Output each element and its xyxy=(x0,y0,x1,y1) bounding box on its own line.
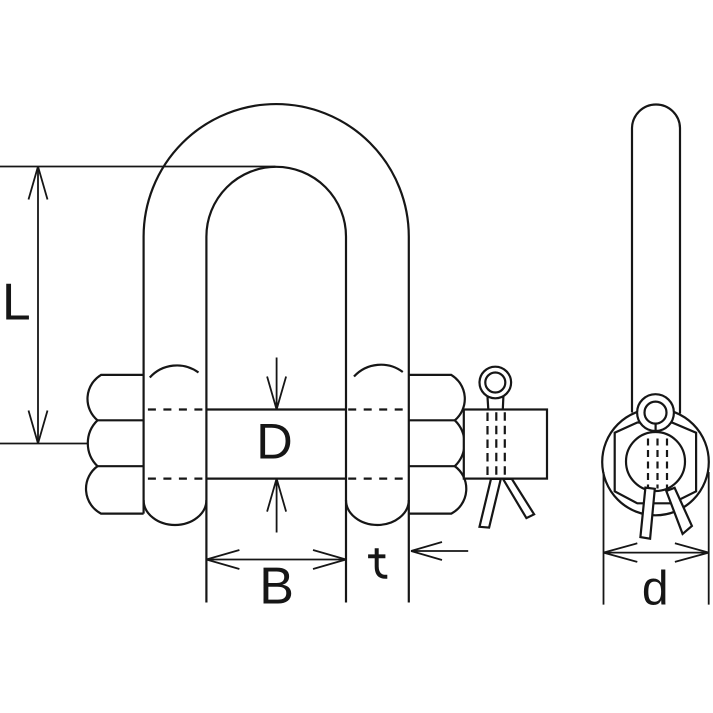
shackle outer bow (front view) xyxy=(144,104,409,602)
cotter pin spread leg left (side view) xyxy=(640,488,654,539)
dim L arrowhead down xyxy=(29,411,48,444)
svg-text:d: d xyxy=(642,563,669,616)
cotter pin ring (front view) xyxy=(480,367,512,399)
svg-text:B: B xyxy=(259,558,294,616)
dim d line with arrows xyxy=(604,552,709,554)
dim L line xyxy=(37,167,39,444)
pin end circle (side view) xyxy=(626,432,685,491)
dim D arrow bottom xyxy=(267,479,286,533)
pin eye circle (side view) xyxy=(602,409,709,516)
hidden bolt line (dashed) bottom, through left boss xyxy=(148,478,204,480)
bolt head face line lower xyxy=(409,465,455,467)
hidden bolt line (dashed) top, through left boss xyxy=(148,408,204,410)
dim D arrow top xyxy=(267,358,286,410)
cotter pin neck right xyxy=(502,396,505,410)
cotter pin spread leg right (side view) xyxy=(666,488,692,534)
hidden bolt line (dashed) top, through right boss xyxy=(348,408,404,410)
dim L extension line bottom xyxy=(0,443,88,445)
cotter pin spread leg right (front view) xyxy=(503,479,534,518)
hex nut face line lower xyxy=(98,465,144,467)
hex nut on left end of bolt xyxy=(86,375,144,514)
right leg boss arc xyxy=(354,365,403,377)
cotter pin hidden shank dashes in plate xyxy=(486,413,488,477)
dim d extension line right xyxy=(708,472,710,605)
left leg boss arc xyxy=(150,365,199,377)
bolt head on right end xyxy=(409,375,466,514)
cotter pin hidden shank dashes (side view) xyxy=(647,439,649,489)
dim L extension line top xyxy=(0,166,276,168)
cotter pin ring (side view) xyxy=(637,394,674,431)
left leg rounded bottom cap xyxy=(144,500,207,525)
label t xyxy=(368,548,387,577)
dim L arrowhead up xyxy=(29,167,48,200)
bolt end plate (cotter pin boss) xyxy=(464,410,547,479)
svg-text:L: L xyxy=(2,273,31,331)
cotter pin neck left xyxy=(486,397,489,410)
hidden bolt line (dashed) bottom, through right boss xyxy=(348,478,404,480)
svg-text:D: D xyxy=(256,413,292,470)
cotter pin wire at ring bottom xyxy=(654,424,656,432)
dim d extension line left xyxy=(603,472,605,605)
bolt head face line upper xyxy=(409,419,455,421)
hex nut face line upper xyxy=(98,419,144,421)
dim t arrow (pointing left) xyxy=(411,542,468,560)
cotter pin spread leg left (front view) xyxy=(480,479,501,528)
right leg rounded bottom cap xyxy=(346,500,409,525)
bolt shank top line between legs xyxy=(206,408,346,410)
pin eye octagon boss xyxy=(615,423,696,504)
bolt shank bottom line between legs xyxy=(206,478,346,480)
dim B line with arrows xyxy=(206,559,346,561)
pin shaft (side view) xyxy=(632,105,680,414)
shackle inner bow (front view) xyxy=(206,167,346,603)
